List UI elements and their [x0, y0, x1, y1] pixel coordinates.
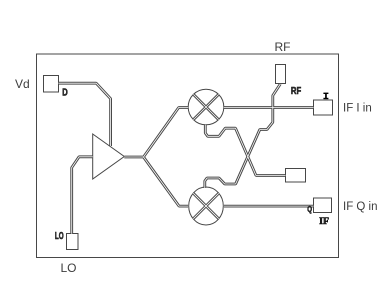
wire mixer M2 to IF Q pad	[224, 205, 314, 208]
svg-text:RF: RF	[291, 86, 301, 97]
op-amp A1 (LO buffer amplifier triangle)	[93, 134, 125, 179]
wire mixer M1 to IF I pad	[224, 106, 314, 109]
wire LO pad to amp input	[72, 157, 93, 234]
mixer M2 X arms	[193, 193, 218, 218]
mixer M1 (upper mixer circle)	[188, 89, 224, 125]
pad ISO (unlabeled termination pad)	[286, 169, 306, 183]
pad IF Q (IF Q input pad)	[314, 198, 332, 213]
pad IF I (IF I input pad)	[314, 100, 333, 115]
svg-text:Vd: Vd	[15, 77, 30, 91]
pad RF (RF output pad)	[276, 65, 286, 84]
svg-text:Q: Q	[307, 204, 312, 214]
wires: outer gray pass	[59, 83, 314, 234]
wire mixer M1 bottom to ISO pad	[205, 125, 285, 176]
outer symbol body box	[37, 54, 339, 258]
wire Vd to amp	[59, 83, 111, 146]
mixer M2 (lower mixer circle)	[189, 187, 224, 225]
svg-text:IF Q in: IF Q in	[343, 201, 378, 213]
wire amp output split	[124, 108, 188, 207]
svg-text:LO: LO	[55, 231, 64, 242]
svg-text:RF: RF	[275, 40, 291, 54]
pin marker I (serif I-beam)	[323, 93, 328, 100]
pad Vd (supply pin pad)	[44, 76, 59, 93]
pad LO (LO input pad)	[67, 234, 79, 250]
wire mixer M2 top to RF pad	[205, 84, 280, 188]
svg-text:D: D	[62, 88, 67, 99]
mixer M1 X arms	[193, 94, 218, 119]
svg-text:LO: LO	[61, 261, 77, 275]
svg-text:IF I in: IF I in	[343, 103, 372, 115]
svg-text:IF: IF	[319, 216, 329, 226]
wires: inner white pass	[59, 83, 314, 234]
